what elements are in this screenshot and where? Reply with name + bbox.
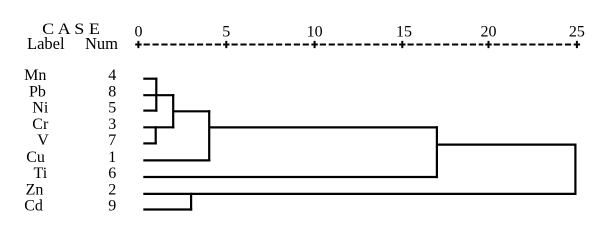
svg-text:6: 6 xyxy=(108,165,116,182)
svg-text:Pb: Pb xyxy=(29,84,46,101)
svg-text:15: 15 xyxy=(396,24,412,41)
merge vertical +Cu at distance 4 xyxy=(208,110,210,161)
svg-text:1: 1 xyxy=(108,149,116,166)
svg-text:9: 9 xyxy=(108,198,116,215)
axis dashed segment 5-10 xyxy=(232,44,310,46)
leaf stub Cr plus cluster CrV output xyxy=(143,126,174,128)
final merge vertical at distance 25 xyxy=(574,144,576,196)
svg-text:Num: Num xyxy=(85,34,118,53)
svg-text:5: 5 xyxy=(222,24,230,41)
leaf stub Mn xyxy=(143,78,157,80)
axis tick + at 10 xyxy=(311,41,317,48)
svg-text:Cu: Cu xyxy=(26,149,45,166)
svg-text:25: 25 xyxy=(569,24,585,41)
svg-text:Ti: Ti xyxy=(34,165,48,182)
leaf stub Zn plus cluster ZnCd output xyxy=(143,193,576,195)
merge vertical MnPbNi at distance 1 xyxy=(155,78,157,112)
svg-text:Label: Label xyxy=(27,34,65,53)
cluster 5-metal output line xyxy=(173,110,210,112)
svg-text:10: 10 xyxy=(307,24,323,41)
svg-text:5: 5 xyxy=(108,99,116,116)
svg-text:20: 20 xyxy=(481,24,497,41)
svg-text:8: 8 xyxy=(108,84,116,101)
svg-text:Mn: Mn xyxy=(24,67,46,84)
svg-text:Cr: Cr xyxy=(32,116,49,133)
leaf stub V xyxy=(143,142,157,144)
leaf stub Cu xyxy=(143,159,210,161)
merge vertical MnPbNi+CrV at distance 2 xyxy=(172,94,174,128)
leaf stub Pb plus cluster MnPbNi output xyxy=(143,94,174,96)
axis dashed segment 20-25 xyxy=(494,44,572,46)
svg-text:3: 3 xyxy=(108,116,116,133)
axis tick + at 25 xyxy=(574,41,580,48)
svg-text:4: 4 xyxy=(108,67,116,84)
axis tick + at 5 xyxy=(223,41,229,48)
svg-text:V: V xyxy=(37,132,49,149)
axis tick + at 15 xyxy=(399,41,405,48)
axis dashed segment 10-15 xyxy=(320,44,397,46)
merge vertical CrV at distance 1 xyxy=(155,126,157,144)
merge vertical ZnCd at distance 3 xyxy=(190,193,192,211)
svg-text:0: 0 xyxy=(135,24,143,41)
leaf stub Ni xyxy=(143,109,157,111)
svg-text:2: 2 xyxy=(108,182,116,199)
svg-text:Ni: Ni xyxy=(32,99,49,116)
svg-text:7: 7 xyxy=(108,132,116,149)
axis dashed segment 0-5 xyxy=(144,44,222,46)
cluster 6-metal output line xyxy=(209,126,438,128)
cluster 7-metal output line xyxy=(437,144,577,146)
axis tick + at 0 xyxy=(135,41,141,48)
svg-text:Cd: Cd xyxy=(24,198,43,215)
svg-text:Zn: Zn xyxy=(26,182,44,199)
leaf stub Cd xyxy=(143,208,192,210)
merge vertical +Ti at distance 17 xyxy=(436,126,438,178)
leaf stub Ti xyxy=(143,176,438,178)
axis dashed segment 15-20 xyxy=(408,44,484,46)
axis tick + at 20 xyxy=(485,41,491,48)
